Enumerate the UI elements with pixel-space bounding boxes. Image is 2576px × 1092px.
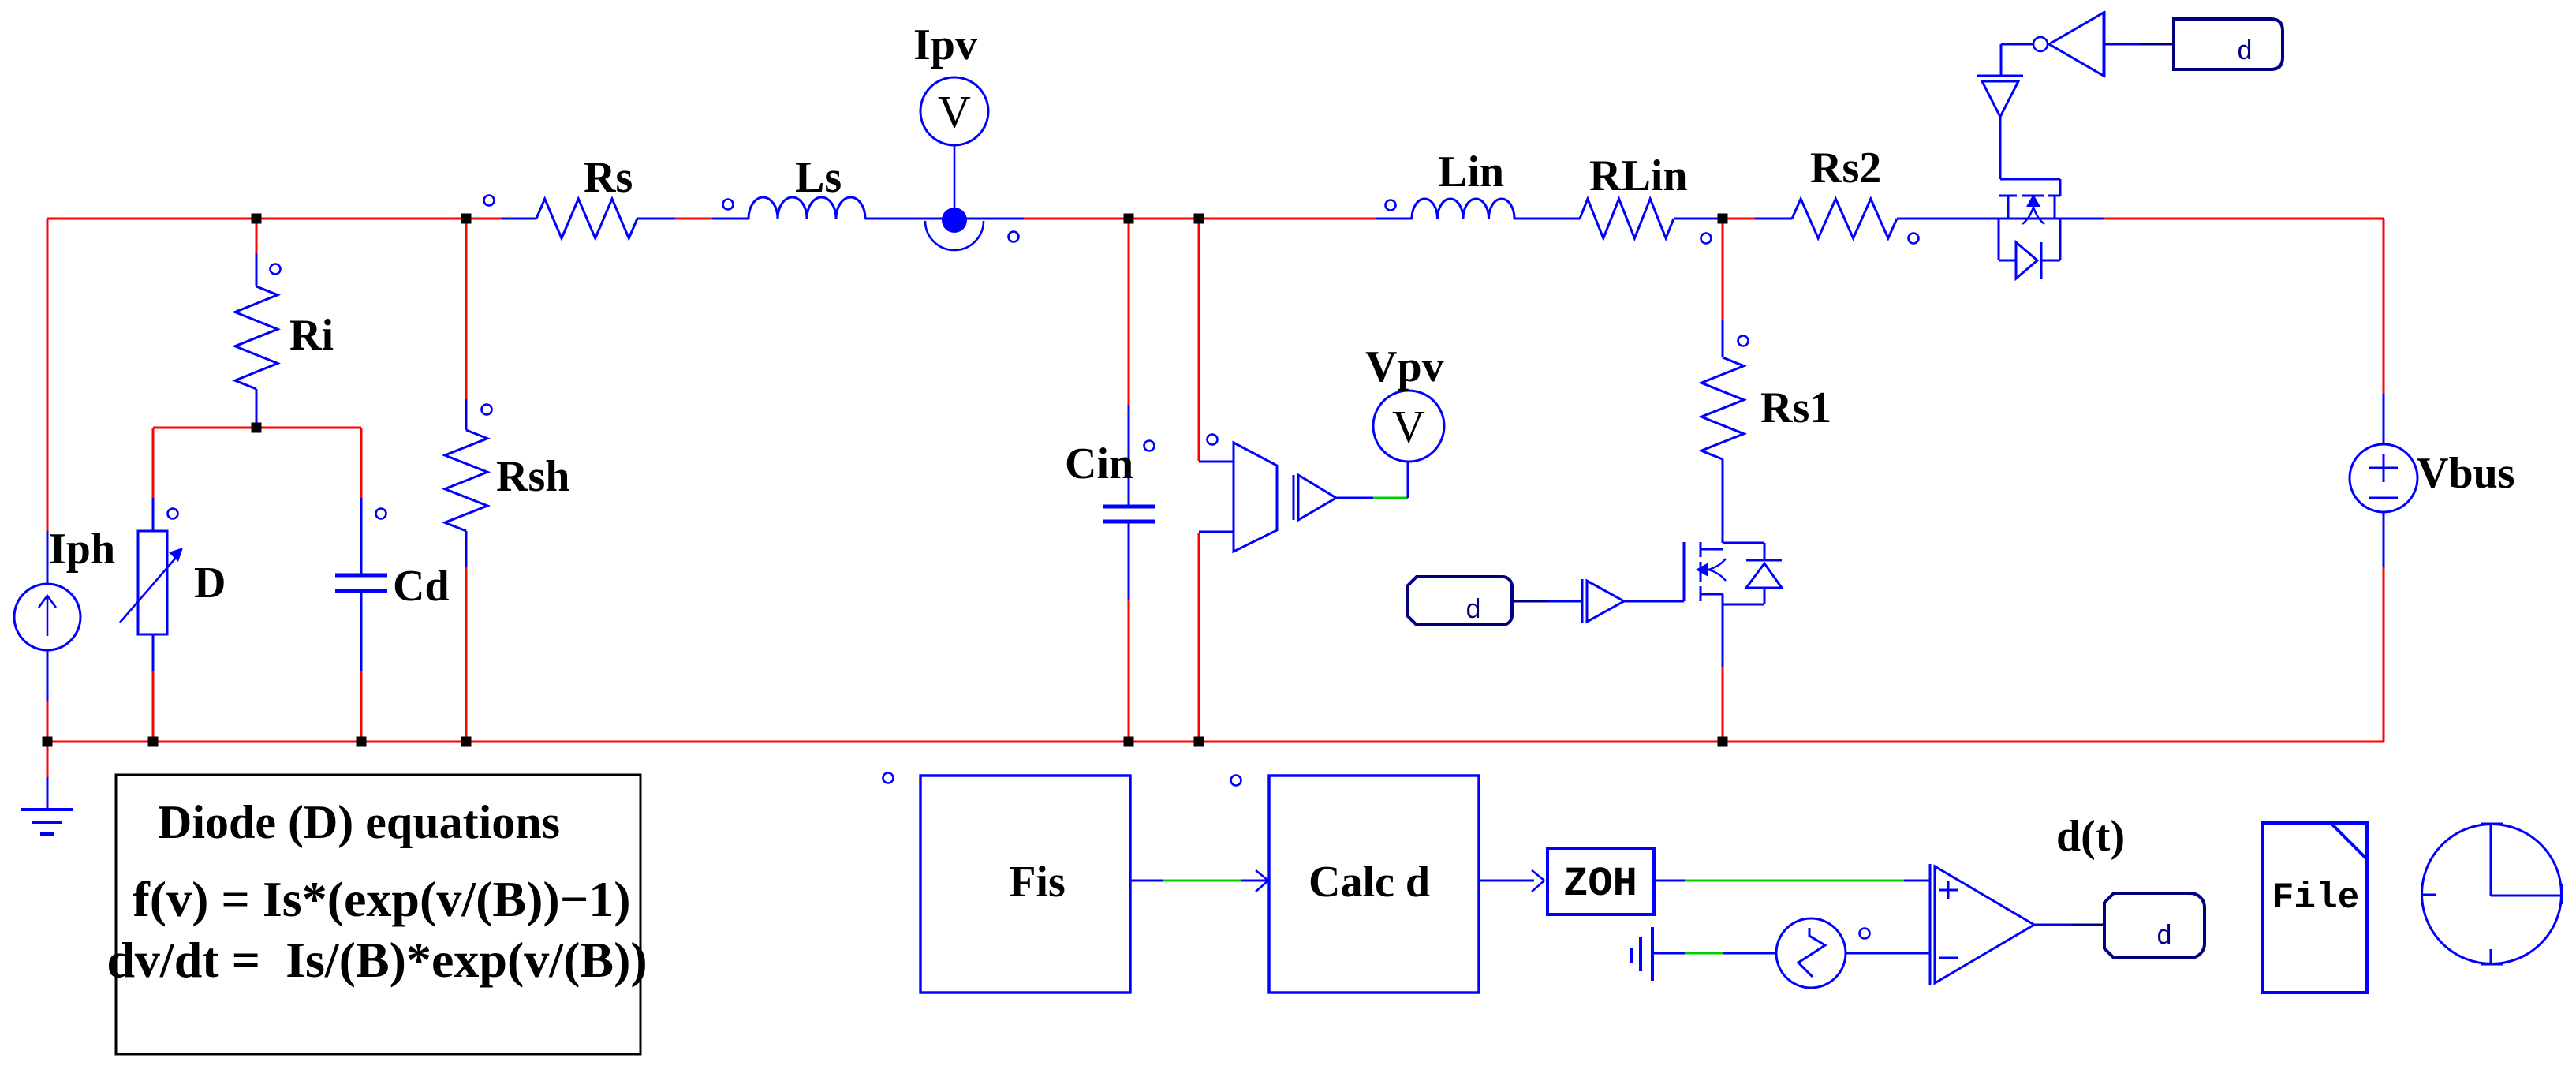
wire <box>1479 880 1534 882</box>
node Ipv <box>1009 232 1019 242</box>
wire <box>2059 179 2062 196</box>
label D <box>194 559 226 608</box>
wire <box>47 777 49 810</box>
svg-text:Rs1: Rs1 <box>1760 383 1831 432</box>
inductor Lin <box>1412 199 1514 219</box>
wire <box>152 498 155 531</box>
wire <box>1897 218 2104 220</box>
wire <box>465 567 468 742</box>
junction <box>252 423 262 433</box>
svg-text:V: V <box>1392 401 1425 452</box>
node Ls <box>723 200 734 210</box>
wire <box>1199 461 1234 463</box>
wire <box>2072 924 2104 926</box>
svg-text:File: File <box>2272 877 2359 918</box>
wire <box>865 218 1024 220</box>
svg-text:Lin: Lin <box>1438 148 1504 196</box>
label Vbus <box>2417 449 2515 498</box>
junction <box>1194 214 1204 224</box>
wire <box>152 671 155 742</box>
label Lin <box>1438 148 1504 196</box>
wire <box>2383 394 2385 444</box>
wire <box>1723 218 1755 220</box>
wire <box>637 218 675 220</box>
wire <box>1999 117 2002 179</box>
resistor Rsh <box>445 430 487 531</box>
wire <box>2383 513 2385 567</box>
current probe Ipv <box>920 77 988 250</box>
junction <box>1194 737 1204 747</box>
svg-text:Vpv: Vpv <box>1365 342 1444 391</box>
resistor RLin <box>1580 199 1674 238</box>
label Rs2 <box>1810 144 1881 193</box>
label Ipv <box>913 21 977 69</box>
equation text <box>106 796 647 988</box>
wire <box>1722 667 1724 742</box>
wire <box>1199 531 1234 533</box>
junction <box>357 737 367 747</box>
wire <box>465 219 468 399</box>
wire <box>1722 219 1724 320</box>
wire <box>1846 952 1930 955</box>
label d input <box>1407 577 1512 626</box>
transistor Q1 <box>1684 542 1726 601</box>
node Rsh <box>482 405 492 415</box>
node RLin <box>1701 234 1712 244</box>
svg-text:Fis: Fis <box>1009 858 1066 907</box>
wire <box>256 389 258 428</box>
wire <box>1336 497 1373 499</box>
label d output <box>2104 893 2205 958</box>
wire <box>675 218 712 220</box>
junction <box>1124 737 1134 747</box>
wire <box>152 634 155 671</box>
wire <box>2000 178 2060 181</box>
junction <box>1124 214 1134 224</box>
wire <box>360 498 363 575</box>
wire <box>1128 405 1130 507</box>
junction <box>461 737 472 747</box>
wire <box>47 218 502 220</box>
inverter U3 <box>2033 11 2104 77</box>
comparator U5 <box>1930 864 2034 985</box>
wire <box>2034 924 2072 926</box>
arrow into Calc d <box>1256 870 1268 892</box>
svg-text:Cin: Cin <box>1065 439 1133 488</box>
svg-text:Iph: Iph <box>49 525 115 574</box>
wire <box>1198 533 1200 742</box>
label Vpv <box>1365 342 1444 391</box>
node Rs1 <box>1738 336 1749 346</box>
voltmeter Vpv <box>1373 391 1444 462</box>
svg-text:Cd: Cd <box>393 562 450 611</box>
inductor Ls <box>749 197 865 219</box>
wire <box>2000 44 2003 75</box>
wire <box>1755 218 1792 220</box>
wire <box>2140 43 2174 46</box>
label Calc d <box>1309 858 1430 907</box>
node Cin <box>1144 441 1155 451</box>
wire <box>2104 218 2384 220</box>
node source <box>1860 929 1870 939</box>
node Cd <box>376 509 386 519</box>
label Iph <box>49 525 115 574</box>
buffer U4 <box>1977 76 2023 117</box>
svg-text:d(t): d(t) <box>2056 812 2125 861</box>
wire <box>2383 567 2385 742</box>
wire <box>47 701 49 742</box>
label Ri <box>289 311 334 360</box>
wire <box>1376 218 1412 220</box>
gate driver U2 <box>1582 579 1624 623</box>
block Fis <box>920 776 1130 993</box>
resistor Rs2 <box>1792 199 1897 238</box>
junction <box>252 214 262 224</box>
wire <box>1514 218 1580 220</box>
wire <box>152 428 155 498</box>
svg-text:Rs: Rs <box>584 153 633 202</box>
svg-text:Rsh: Rsh <box>496 452 569 501</box>
wire <box>1128 522 1130 600</box>
svg-text:Vbus: Vbus <box>2417 449 2515 498</box>
wire <box>1904 880 1930 882</box>
ground <box>21 810 73 834</box>
label Cin <box>1065 439 1133 488</box>
wire <box>1722 320 1724 357</box>
wire <box>1654 880 1685 882</box>
svg-text:Ri: Ri <box>289 311 334 360</box>
wire <box>1652 952 1685 955</box>
svg-text:d: d <box>1465 596 1481 626</box>
wire <box>1722 594 1724 667</box>
arrow into ZOH <box>1532 870 1544 892</box>
wire <box>47 741 2384 743</box>
label Rs1 <box>1760 383 1831 432</box>
block Calc d <box>1269 776 1479 993</box>
svg-text:D: D <box>194 559 226 608</box>
node Rs <box>484 196 495 206</box>
svg-text:Ls: Ls <box>795 153 842 202</box>
wire <box>1163 880 1241 882</box>
svg-text:d: d <box>2237 38 2253 68</box>
wire <box>360 428 363 498</box>
label Cd <box>393 562 450 611</box>
label V Vpv <box>1392 401 1425 452</box>
node Lin <box>1386 200 1396 211</box>
label d(t) <box>2056 812 2125 861</box>
wire <box>1241 880 1267 882</box>
wire <box>1624 600 1684 603</box>
label Fis <box>1009 858 1066 907</box>
junction <box>461 214 472 224</box>
wire <box>502 218 536 220</box>
node Fis <box>883 773 894 783</box>
wire <box>360 671 363 742</box>
block File <box>2263 823 2367 993</box>
wire <box>712 218 749 220</box>
label V Ipv <box>938 86 971 137</box>
label Rsh <box>496 452 569 501</box>
triangle source <box>1776 918 1846 988</box>
wire <box>1373 497 1408 499</box>
buffer U1 <box>1294 475 1336 520</box>
resistor Rs <box>536 199 637 238</box>
body diode D2 <box>1999 219 2060 279</box>
wire <box>47 219 49 531</box>
wire <box>1130 880 1163 882</box>
node Ri <box>271 264 281 275</box>
junction <box>148 737 159 747</box>
svg-text:dv/dt = Is/(B)*exp(v/(B)): dv/dt = Is/(B)*exp(v/(B)) <box>106 932 647 988</box>
wire <box>1128 600 1130 742</box>
equation box <box>116 775 640 1054</box>
label ZOH <box>1563 861 1637 907</box>
capacitor Cin <box>1103 507 1155 522</box>
svg-text:Rs2: Rs2 <box>1810 144 1881 193</box>
wire <box>47 650 49 701</box>
wire <box>256 253 258 286</box>
wire <box>47 531 49 584</box>
svg-text:ZOH: ZOH <box>1563 861 1637 907</box>
wire <box>360 591 363 671</box>
block ZOH <box>1547 848 1654 914</box>
svg-text:d: d <box>2156 922 2172 952</box>
svg-text:Ipv: Ipv <box>913 21 977 69</box>
voltage sensor <box>1234 443 1277 552</box>
source Vbus <box>2350 444 2417 512</box>
wire <box>2104 43 2140 46</box>
ground control <box>1631 927 1652 981</box>
resistor Ri <box>235 286 278 389</box>
wire <box>465 531 468 567</box>
label d input2 <box>2174 19 2283 69</box>
wire <box>47 742 49 777</box>
wire <box>1548 600 1582 603</box>
clock <box>2422 824 2563 965</box>
wire <box>1674 218 1723 220</box>
svg-text:V: V <box>938 86 971 137</box>
capacitor Cd <box>335 575 387 591</box>
label Ls <box>795 153 842 202</box>
wire <box>1128 219 1130 405</box>
junction <box>1718 214 1728 224</box>
label RLin <box>1589 151 1688 200</box>
wire <box>256 219 258 253</box>
node sensor <box>1208 435 1218 445</box>
wire <box>1407 462 1409 498</box>
wire <box>1723 952 1776 955</box>
node Rs2 <box>1909 234 1919 244</box>
wire <box>1685 952 1723 955</box>
wire <box>1512 600 1548 603</box>
wire <box>2383 219 2385 394</box>
resistor Rs1 <box>1701 357 1744 459</box>
nonlinear diode D <box>120 531 183 634</box>
svg-text:RLin: RLin <box>1589 151 1688 200</box>
wire <box>1024 218 1376 220</box>
junction <box>43 737 53 747</box>
node D <box>168 509 178 519</box>
svg-text:Calc d: Calc d <box>1309 858 1430 907</box>
label File <box>2272 877 2359 918</box>
wire <box>1722 459 1724 543</box>
wire <box>1198 219 1200 461</box>
junction <box>1718 737 1728 747</box>
label Rs <box>584 153 633 202</box>
node Calc d <box>1231 776 1241 786</box>
transistor Q2 <box>1999 194 2060 224</box>
svg-text:f(v) = Is*(exp(v/(B))−1): f(v) = Is*(exp(v/(B))−1) <box>133 871 630 927</box>
wire <box>1685 880 1904 882</box>
body diode D1 <box>1723 543 1782 604</box>
wire <box>465 399 468 430</box>
svg-text:Diode (D) equations: Diode (D) equations <box>158 796 560 848</box>
wire <box>2001 43 2033 46</box>
wire <box>153 427 361 429</box>
current source Iph <box>14 584 80 650</box>
